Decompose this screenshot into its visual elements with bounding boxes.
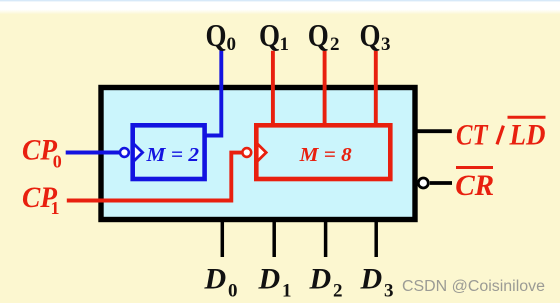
wire D2 input xyxy=(324,220,328,257)
svg-text:D: D xyxy=(204,263,227,296)
svg-text:CSDN @Coisinilove: CSDN @Coisinilove xyxy=(402,278,545,295)
wire D1 input xyxy=(272,220,276,257)
svg-text:1: 1 xyxy=(282,281,292,302)
svg-text:D: D xyxy=(309,263,332,296)
wire D0 input xyxy=(221,220,225,257)
svg-text:1: 1 xyxy=(280,34,290,55)
svg-text:LD: LD xyxy=(509,119,546,152)
wire CT/LD xyxy=(416,129,452,133)
svg-text:D: D xyxy=(360,263,383,296)
inverter bubble CR xyxy=(418,178,428,188)
overline LD xyxy=(508,116,546,119)
outer counter box U1 xyxy=(101,88,415,220)
divider box M=8 xyxy=(256,125,390,179)
svg-text:2: 2 xyxy=(330,34,340,55)
svg-text:M = 2: M = 2 xyxy=(145,144,199,166)
svg-text:0: 0 xyxy=(228,281,238,302)
svg-text:3: 3 xyxy=(381,34,391,55)
wire CP1 input xyxy=(67,153,243,201)
wire CR xyxy=(430,181,452,185)
clock bubble M=2 xyxy=(120,148,129,157)
svg-text:0: 0 xyxy=(227,34,237,55)
clock edge triangle M=8 xyxy=(257,144,266,162)
svg-text:Q: Q xyxy=(360,17,381,53)
svg-text:0: 0 xyxy=(53,152,62,172)
svg-text:M = 8: M = 8 xyxy=(299,144,352,166)
clock bubble M=8 xyxy=(242,148,251,157)
svg-text:CR: CR xyxy=(455,169,494,202)
svg-text:D: D xyxy=(258,263,281,296)
wire Q1 output xyxy=(271,51,275,127)
svg-text:Q: Q xyxy=(308,17,329,53)
svg-text:Q: Q xyxy=(259,17,280,53)
divider box M=2 xyxy=(133,125,205,179)
svg-text:CT: CT xyxy=(456,119,489,152)
wire CP0 input xyxy=(66,151,122,155)
clock edge triangle M=2 xyxy=(134,144,143,162)
overline CR xyxy=(456,166,493,169)
svg-text:1: 1 xyxy=(51,198,60,218)
top white band artifact xyxy=(0,0,560,10)
wire Q2 output xyxy=(323,51,327,127)
wire Q0 output xyxy=(205,51,222,136)
wire Q3 output xyxy=(374,51,378,127)
wire D3 input xyxy=(374,220,378,257)
svg-text:3: 3 xyxy=(384,281,394,302)
svg-text:2: 2 xyxy=(333,281,343,302)
svg-text:Q: Q xyxy=(206,17,227,53)
